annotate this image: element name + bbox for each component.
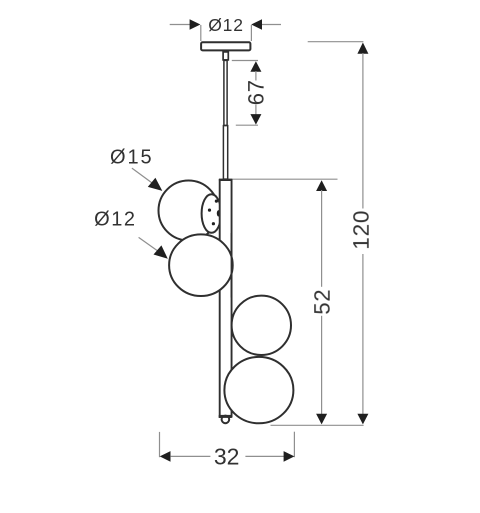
dimension 52: line upper segment — [321, 190, 323, 287]
label Ø15: leader line — [132, 168, 154, 184]
svg-text:Ø12: Ø12 — [94, 209, 136, 231]
dimension 32: right extension line — [293, 432, 295, 458]
svg-text:120: 120 — [349, 210, 374, 250]
dimension 120: line lower segment — [362, 254, 364, 415]
label Ø12: leader line — [139, 237, 159, 251]
socket side nub — [217, 210, 221, 216]
main rod ball finial — [222, 416, 230, 424]
dimension 52: up arrow — [316, 180, 327, 191]
dimension 52: top extension line — [233, 178, 338, 180]
dimension 120: line upper segment — [362, 53, 364, 209]
socket dot c — [212, 222, 215, 225]
dimension 67: line lower segment — [255, 105, 257, 115]
canopy stem connector — [223, 52, 228, 60]
dimension Ø12 top: right arrow — [251, 19, 262, 30]
main rod bottom cap overpaint — [219, 415, 232, 418]
glass sphere 2 (Ø12) — [169, 234, 233, 296]
dimension 32: left line — [170, 455, 210, 457]
svg-text:52: 52 — [310, 289, 335, 315]
dimension 32: right line — [245, 455, 284, 457]
dimension Ø12 top: left arrow — [190, 19, 201, 30]
svg-text:Ø15: Ø15 — [110, 147, 154, 169]
label Ø15: leader arrow — [148, 178, 163, 191]
dimension 67: down arrow — [250, 114, 261, 125]
dimension Ø12 top: left line — [170, 24, 191, 26]
suspension rod upper segment — [224, 60, 227, 125]
glass sphere 4 — [224, 357, 293, 423]
canopy ceiling plate — [201, 42, 250, 50]
main rod bar — [220, 180, 232, 417]
dimension 120: down arrow — [357, 414, 368, 425]
dimension Ø12 top: right line — [262, 24, 281, 26]
glass sphere 1 (Ø15) — [159, 181, 219, 241]
suspension rod lower segment — [223, 126, 227, 180]
dimension Ø12 top: right extension line — [250, 25, 252, 41]
svg-text:67: 67 — [244, 79, 269, 105]
glass sphere 3 — [232, 296, 291, 355]
socket dot b — [208, 209, 211, 212]
dimension 67: up arrow — [250, 61, 261, 72]
dimension 67: top line — [232, 60, 258, 62]
main rod right edge over sphere 2 — [231, 233, 233, 298]
svg-text:Ø12: Ø12 — [208, 15, 243, 35]
dimension 52: line lower segment — [321, 316, 323, 415]
dimension 120: bottom extension line — [271, 424, 364, 426]
lamp socket on sphere 1 — [202, 194, 222, 233]
main rod bottom cap — [219, 415, 232, 418]
dimension 120: top extension line — [308, 41, 364, 43]
dimension 120: up arrow — [357, 43, 368, 54]
dimension 52: down arrow — [316, 414, 327, 425]
svg-text:32: 32 — [214, 443, 240, 469]
main rod top cap — [219, 179, 233, 181]
dimension 67: bottom line — [236, 124, 258, 126]
label Ø12: leader arrow — [154, 245, 168, 258]
dimension Ø12 top: left extension line — [200, 25, 202, 41]
dimension 32: left extension line — [159, 432, 161, 457]
socket dot a — [215, 200, 218, 203]
dimension 32: left arrow — [160, 451, 171, 462]
dimension 67: line upper segment — [255, 71, 257, 81]
dimension 32: right arrow — [284, 451, 295, 462]
